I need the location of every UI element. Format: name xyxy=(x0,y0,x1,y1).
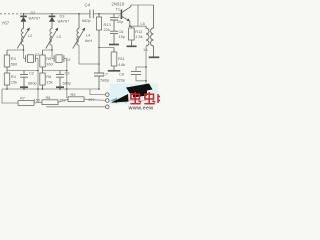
node drop1 mid xyxy=(37,70,39,72)
top wire (bus to C4 left plate) xyxy=(23,13,90,15)
wire R9 to terminal xyxy=(84,99,105,100)
svg-text:1A: 1A xyxy=(143,47,148,52)
node drop1 rail xyxy=(37,88,39,90)
svg-text:R6: R6 xyxy=(46,74,51,79)
ground under secondary xyxy=(149,56,160,58)
wire emitter node to R12/L5 xyxy=(130,25,146,27)
ground under R11 xyxy=(108,70,120,72)
channel 1: wire node to legs xyxy=(7,45,24,58)
node ch1 xyxy=(23,49,25,51)
svg-text:R7: R7 xyxy=(20,96,25,101)
diode D3 xyxy=(49,14,56,29)
svg-text:15p: 15p xyxy=(119,34,126,39)
svg-text:R9: R9 xyxy=(71,92,76,97)
crystal drop 2 xyxy=(66,59,68,99)
node drop2 rail xyxy=(66,88,68,90)
crystal X2 xyxy=(24,55,39,63)
svg-text:L2: L2 xyxy=(28,33,32,38)
variable inductor L3 xyxy=(46,28,59,50)
switch terminal xyxy=(124,99,128,103)
svg-text:580p: 580p xyxy=(101,77,110,82)
ground under C6 xyxy=(109,44,119,46)
wire switch to output vertical xyxy=(128,100,147,102)
node at L4 tap xyxy=(78,13,80,15)
svg-text:C7: C7 xyxy=(103,71,108,76)
svg-text:C8: C8 xyxy=(119,72,124,77)
left edge drop xyxy=(2,89,18,103)
watermark char 1 (bug glyph) xyxy=(130,92,141,104)
switch arrow xyxy=(110,98,117,104)
wire R11 feed xyxy=(99,47,114,49)
svg-text:680p: 680p xyxy=(28,81,37,86)
svg-text:15k: 15k xyxy=(46,79,52,84)
svg-text:X2: X2 xyxy=(35,52,40,57)
svg-text:40p: 40p xyxy=(117,19,124,24)
wire R8-R9 xyxy=(58,99,68,102)
wire L4 bottom to node on R13 column xyxy=(79,45,99,64)
antenna bus dashed wire xyxy=(0,13,23,15)
svg-text:22k: 22k xyxy=(104,27,110,32)
svg-text:1.5k: 1.5k xyxy=(135,34,142,39)
resistor R9 xyxy=(68,97,84,102)
node at D3 tap xyxy=(51,13,53,15)
capacitor C7 xyxy=(94,48,104,90)
node C8 top xyxy=(145,66,147,68)
svg-text:6nH: 6nH xyxy=(85,38,92,43)
svg-text:360: 360 xyxy=(46,61,53,66)
resistor R3 xyxy=(4,50,9,71)
capacitor C4 xyxy=(90,10,93,19)
svg-text:150: 150 xyxy=(34,97,41,102)
watermark partial char right xyxy=(158,94,160,103)
svg-text:4.8k: 4.8k xyxy=(118,62,125,67)
svg-text:C4: C4 xyxy=(85,3,91,8)
ground under R12 xyxy=(127,45,137,47)
wire C4 right plate to T1 base xyxy=(93,13,121,15)
node emitter xyxy=(129,25,131,27)
node drop2 mid xyxy=(66,70,68,72)
resistor R6 xyxy=(40,71,45,90)
rail drop to L5 primary xyxy=(137,5,139,26)
svg-text:BAY67: BAY67 xyxy=(58,19,70,24)
node R11 feed xyxy=(98,47,100,49)
svg-text:X3: X3 xyxy=(66,57,71,62)
switch wire xyxy=(117,100,124,102)
capacitor C5 xyxy=(110,14,118,31)
ground rail xyxy=(2,88,99,90)
svg-text:Y67: Y67 xyxy=(2,21,10,26)
ch2 mid rail xyxy=(43,70,67,72)
channel 2: wire node to legs xyxy=(43,45,53,58)
watermark char 2 (bug glyph) xyxy=(144,92,155,104)
watermark wing xyxy=(111,94,129,103)
resistor R11 xyxy=(111,48,117,71)
bar under C2 xyxy=(20,86,28,88)
crystal drop 1 xyxy=(37,59,39,103)
watermark cap crown xyxy=(133,90,148,98)
watermark highlight box xyxy=(110,84,158,105)
capacitor C3 xyxy=(56,71,64,90)
crystal X3 xyxy=(52,55,67,63)
node ch2 xyxy=(51,49,53,51)
capacitor C8 xyxy=(131,67,146,81)
svg-text:680p: 680p xyxy=(82,18,91,23)
svg-text:R4: R4 xyxy=(11,74,17,79)
transformer secondary winding xyxy=(151,5,154,57)
rail junction nodes xyxy=(6,88,8,90)
resistor R5 xyxy=(40,50,45,71)
transformer primary winding xyxy=(146,26,149,46)
svg-text:R11: R11 xyxy=(118,56,125,61)
svg-text:15k: 15k xyxy=(11,79,17,84)
svg-text:T1: T1 xyxy=(116,7,121,12)
variable inductor L4 xyxy=(73,28,86,49)
collector rail xyxy=(131,4,154,6)
node C8 bottom xyxy=(145,80,147,82)
svg-text:L3: L3 xyxy=(57,34,61,39)
resistor R13 xyxy=(96,14,101,48)
resistor R7 xyxy=(18,101,34,106)
diode D2 xyxy=(20,14,27,29)
svg-text:C2: C2 xyxy=(29,71,34,76)
node at R13 tap xyxy=(98,13,100,15)
variable inductor L2 xyxy=(17,28,30,50)
svg-text:L5: L5 xyxy=(141,21,145,26)
wire C7 to top terminal xyxy=(90,89,105,95)
wire R7-R8 xyxy=(34,101,42,104)
svg-text:BAY67: BAY67 xyxy=(29,15,41,20)
resistor R8 xyxy=(42,100,58,105)
resistor R12 xyxy=(129,26,135,46)
svg-text:R5: R5 xyxy=(46,56,51,61)
capacitor C2 xyxy=(20,71,28,90)
svg-text:R8: R8 xyxy=(46,95,51,100)
svg-text:R3: R3 xyxy=(11,56,16,61)
capacitor C6 xyxy=(110,31,118,44)
svg-text:220p: 220p xyxy=(117,78,126,83)
node L4 join xyxy=(98,63,100,65)
svg-text:560: 560 xyxy=(11,61,18,66)
terminal top xyxy=(106,93,110,97)
resistor R4 xyxy=(4,71,9,90)
svg-text:www.eew: www.eew xyxy=(128,106,155,110)
node at D2 tap xyxy=(23,13,25,15)
watermark cap board xyxy=(126,84,153,94)
terminal bottom xyxy=(106,105,110,109)
output vertical wire xyxy=(145,46,147,101)
bottom long wire xyxy=(46,106,105,108)
ch1 mid rail xyxy=(7,70,38,72)
wire L4 tap down xyxy=(78,14,80,29)
transistor T1 2N918 xyxy=(121,5,130,26)
bar under C3 xyxy=(56,86,64,88)
terminal middle xyxy=(106,99,110,103)
